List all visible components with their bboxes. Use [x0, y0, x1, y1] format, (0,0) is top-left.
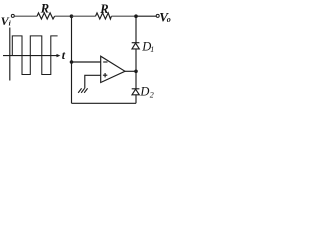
label D2 — [139, 84, 153, 99]
wire Vi to R1 — [14, 15, 37, 17]
wire R2 to node B — [111, 15, 136, 17]
resistor R1 — [37, 13, 55, 19]
svg-text:2: 2 — [150, 91, 154, 100]
ground — [78, 88, 87, 93]
waveform vertical axis — [9, 28, 11, 81]
label Vo — [159, 9, 171, 24]
feedback left vertical wire — [71, 16, 73, 103]
wire node B down to D1 cathode — [135, 16, 137, 43]
wire op-amp output — [125, 70, 136, 72]
bottom feedback wire — [72, 102, 137, 104]
input terminal Vi — [11, 14, 14, 17]
wire node A to R2 — [72, 15, 96, 17]
resistor R2 — [96, 13, 112, 19]
label D1 — [141, 40, 154, 55]
op-amp plus sign — [103, 74, 107, 76]
wire D1 anode to output junction — [135, 49, 137, 71]
node A junction dot — [70, 14, 74, 18]
wire R1 to node A — [55, 15, 72, 17]
output terminal Vo — [156, 14, 159, 17]
svg-text:R: R — [99, 2, 108, 16]
wire tap to op-amp inverting input — [72, 61, 101, 63]
wire D2 anode down to bottom wire — [135, 95, 137, 104]
svg-text:R: R — [40, 1, 49, 15]
op-amp U1 triangle — [101, 56, 125, 82]
diode D2 — [132, 89, 140, 95]
label Vi — [1, 14, 12, 28]
node output junction dot — [134, 70, 138, 74]
wire node B to Vo — [136, 15, 156, 17]
square wave — [12, 36, 57, 75]
node inverting-input tap dot — [70, 60, 74, 64]
waveform t axis — [3, 55, 58, 57]
svg-text:D: D — [139, 84, 149, 98]
svg-text:o: o — [167, 15, 171, 24]
op-amp minus sign — [103, 61, 107, 63]
t axis arrowhead — [57, 54, 61, 57]
wire output junction down to D2 cathode — [135, 71, 137, 89]
node B junction dot — [134, 14, 138, 18]
svg-text:1: 1 — [150, 45, 154, 54]
diode D1 — [132, 43, 140, 49]
wire op-amp + input to ground — [85, 75, 101, 88]
